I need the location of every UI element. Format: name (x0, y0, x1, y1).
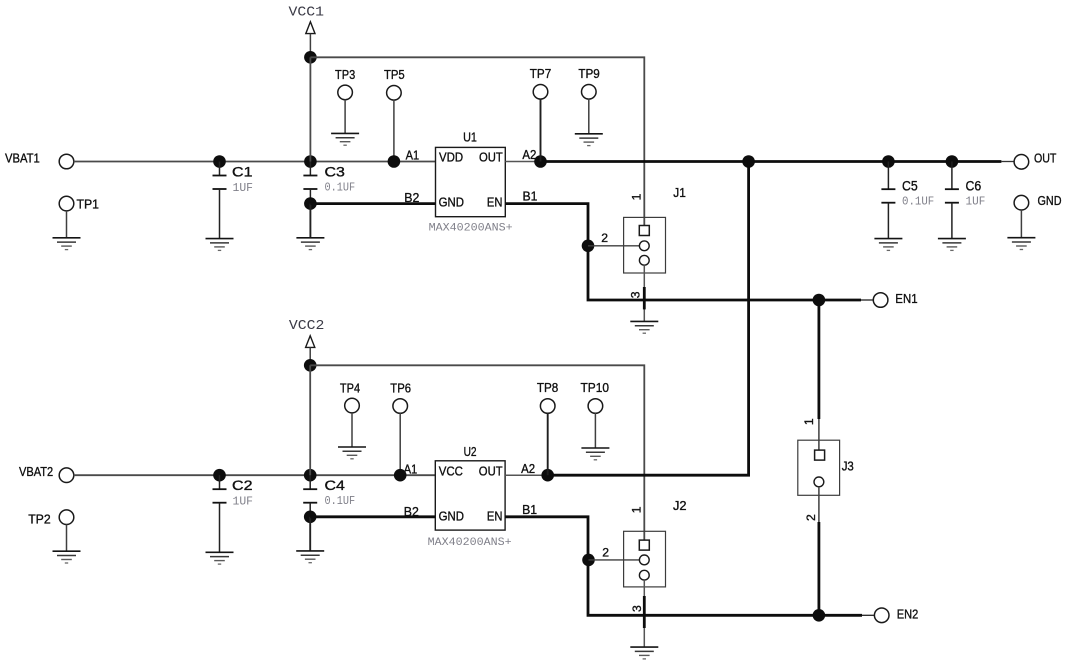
wire TP5 lead (393, 100, 395, 162)
wire OUT net lower (548, 162, 749, 476)
svg-text:GND: GND (439, 196, 464, 210)
wire TP7 lead (540, 99, 542, 162)
wire OUT net (541, 160, 1002, 163)
svg-text:TP3: TP3 (335, 67, 355, 82)
svg-text:J2: J2 (673, 498, 687, 513)
svg-text:EN: EN (487, 196, 503, 210)
node C4 junction (304, 469, 317, 482)
svg-text:B1: B1 (523, 188, 538, 203)
ground C3 (296, 238, 324, 250)
wire U2 OUT pin lead (505, 474, 542, 476)
svg-text:MAX40200ANS+: MAX40200ANS+ (429, 222, 513, 234)
svg-text:EN: EN (487, 509, 503, 523)
svg-text:1: 1 (629, 506, 643, 513)
svg-text:TP5: TP5 (384, 67, 405, 82)
wire U1 GND net (310, 202, 435, 205)
svg-text:C6: C6 (966, 178, 982, 193)
wire J2 pin 3 to ground (643, 580, 645, 647)
node C2 junction (213, 469, 226, 482)
wire C3 to ground (309, 204, 311, 238)
wire EN1 to J3 pin 1 (818, 300, 821, 419)
svg-text:3: 3 (629, 291, 643, 298)
test point TP7 (533, 85, 548, 100)
svg-text:TP10: TP10 (581, 380, 610, 395)
terminal OUT (1014, 155, 1029, 170)
terminal GND (1014, 195, 1029, 210)
ground TP9 (575, 134, 603, 146)
capacitor C3 (303, 162, 317, 204)
wire TP10 lead (594, 413, 596, 448)
svg-text:VCC: VCC (439, 465, 463, 479)
svg-text:VDD: VDD (439, 151, 463, 165)
svg-text:1: 1 (802, 418, 816, 425)
wire TP9 lead (588, 99, 590, 134)
svg-text:1: 1 (629, 193, 643, 200)
svg-text:U2: U2 (464, 444, 477, 459)
ground TP3 (331, 133, 359, 145)
svg-text:VCC1: VCC1 (289, 6, 325, 21)
wire to J2 pin 2 (589, 559, 640, 561)
svg-text:A1: A1 (406, 148, 420, 163)
svg-text:C1: C1 (232, 164, 253, 179)
jumper J2 (624, 531, 666, 587)
svg-text:GND: GND (1038, 193, 1062, 208)
svg-text:U1: U1 (463, 129, 477, 144)
svg-text:A1: A1 (404, 461, 418, 476)
wire VCC2 stub to VBAT2 rail (309, 365, 311, 475)
svg-text:C5: C5 (902, 178, 918, 193)
wire TP1 lead (66, 211, 68, 238)
node C3 GND junction (304, 197, 317, 210)
wire U2 EN net (505, 517, 862, 616)
svg-text:TP1: TP1 (77, 196, 100, 211)
svg-text:EN2: EN2 (897, 607, 919, 622)
wire U1 EN net (505, 204, 861, 300)
jumper J1 (624, 217, 666, 273)
test point TP2 (59, 510, 74, 525)
J2 pin 2 (639, 555, 649, 565)
svg-text:C3: C3 (325, 164, 345, 179)
svg-text:TP9: TP9 (578, 66, 599, 81)
wire TP3 lead (344, 100, 346, 134)
svg-text:EN1: EN1 (895, 291, 917, 306)
node EN2 junction (813, 609, 826, 622)
J1 pin 1 (639, 226, 649, 236)
svg-text:A2: A2 (521, 461, 535, 476)
svg-text:0.1UF: 0.1UF (325, 494, 356, 508)
svg-text:TP7: TP7 (530, 66, 551, 81)
wire VCC1 rail to J1 pin 1 (310, 57, 644, 225)
test point TP8 (540, 399, 555, 414)
test point TP1 (59, 196, 74, 211)
capacitor C1 (213, 162, 227, 239)
svg-text:OUT: OUT (479, 151, 503, 165)
node A1 (388, 155, 401, 168)
svg-text:TP2: TP2 (28, 512, 51, 527)
wire TP2 lead (66, 524, 68, 551)
svg-text:0.1UF: 0.1UF (325, 181, 356, 195)
ground TP4 (338, 447, 366, 459)
node C1 junction (213, 155, 226, 168)
svg-text:OUT: OUT (479, 465, 503, 479)
test point TP6 (393, 399, 408, 414)
svg-text:B2: B2 (404, 190, 419, 205)
svg-text:C2: C2 (232, 478, 253, 493)
jumper J3 (798, 440, 840, 495)
ground TP1 (53, 238, 81, 250)
test point TP9 (582, 85, 597, 100)
svg-text:J1: J1 (673, 185, 686, 200)
terminal EN2 (874, 608, 889, 623)
node A1 lower (394, 469, 407, 482)
wire TP6 lead (399, 413, 401, 475)
ground GND terminal (1007, 238, 1035, 250)
wire VCC1 stub to VBAT1 rail (309, 57, 311, 161)
J1 pin 3 (639, 255, 649, 265)
svg-text:1UF: 1UF (233, 495, 254, 509)
wire VCC2 rail to J2 pin 1 (310, 365, 644, 540)
wire GND terminal lead (1020, 210, 1022, 238)
J3 pin 2 (814, 477, 824, 487)
capacitor C5 (881, 162, 895, 239)
node A2 lower (541, 469, 554, 482)
svg-text:2: 2 (804, 514, 818, 521)
ground C1 (206, 239, 234, 251)
wire J3 pin 2 to EN2 (818, 487, 820, 522)
terminal VBAT2 (59, 468, 74, 483)
svg-text:TP8: TP8 (537, 380, 558, 395)
svg-text:2: 2 (602, 546, 609, 560)
node VCC1 junction (304, 51, 317, 64)
J2 pin 1 (639, 540, 649, 550)
svg-text:B1: B1 (522, 502, 537, 517)
wire J1 pin 3 to ground (643, 265, 645, 321)
node J2 pin 2 junction (582, 554, 595, 567)
ground C2 (206, 552, 234, 564)
node A2 (534, 155, 547, 168)
ground C6 (938, 239, 966, 251)
node C5 junction (882, 155, 895, 168)
svg-text:2: 2 (601, 231, 608, 245)
wire U2 GND net (310, 515, 435, 518)
test point TP4 (345, 398, 360, 413)
node VCC2 junction (304, 359, 317, 372)
svg-text:GND: GND (439, 509, 464, 523)
test point TP5 (387, 86, 402, 101)
svg-text:TP4: TP4 (340, 380, 360, 395)
svg-text:0.1UF: 0.1UF (902, 194, 934, 208)
svg-text:1UF: 1UF (966, 194, 986, 208)
node OUT column junction (742, 155, 755, 168)
op-amp U2 (435, 461, 505, 530)
capacitor C4 (303, 475, 317, 517)
node EN1 junction (813, 294, 826, 307)
wire VBAT1 to U1 VDD (74, 161, 436, 163)
J3 pin 1 (815, 450, 825, 460)
J2 pin 3 (639, 570, 649, 580)
wire C4 to ground (309, 517, 311, 551)
capacitor C6 (945, 162, 959, 239)
ground TP10 (581, 448, 609, 460)
node C6 junction (946, 155, 959, 168)
svg-text:B2: B2 (404, 504, 419, 519)
node C4 GND junction (304, 511, 317, 524)
svg-text:VBAT1: VBAT1 (5, 150, 40, 165)
ground C5 (874, 239, 902, 251)
wire to J1 pin 2 (588, 245, 639, 247)
J1 pin 2 (639, 241, 649, 251)
svg-text:C4: C4 (325, 478, 346, 493)
svg-text:VBAT2: VBAT2 (19, 464, 53, 479)
node C3 junction (304, 155, 317, 168)
svg-text:OUT: OUT (1034, 150, 1056, 165)
svg-text:J3: J3 (842, 459, 854, 474)
op-amp U1 (436, 147, 506, 216)
wire TP4 lead (351, 413, 353, 447)
ground J2 (630, 647, 658, 659)
svg-text:TP6: TP6 (390, 380, 411, 395)
svg-text:A2: A2 (522, 147, 536, 162)
ground C4 (296, 551, 324, 563)
terminal EN1 (873, 293, 888, 308)
ground J1 (630, 321, 658, 333)
capacitor C2 (213, 475, 227, 552)
wire VBAT2 to U2 VCC (74, 474, 436, 476)
node J1 pin 2 junction (582, 240, 595, 253)
terminal VBAT1 (59, 154, 74, 169)
test point TP10 (588, 399, 603, 414)
wire TP8 lead (547, 413, 549, 475)
svg-text:VCC2: VCC2 (289, 319, 325, 334)
svg-text:MAX40200ANS+: MAX40200ANS+ (428, 537, 512, 549)
wire U1 OUT pin lead (505, 161, 535, 163)
ground TP2 (53, 551, 81, 563)
svg-text:1UF: 1UF (233, 181, 254, 195)
test point TP3 (338, 85, 353, 100)
svg-text:3: 3 (630, 605, 644, 612)
